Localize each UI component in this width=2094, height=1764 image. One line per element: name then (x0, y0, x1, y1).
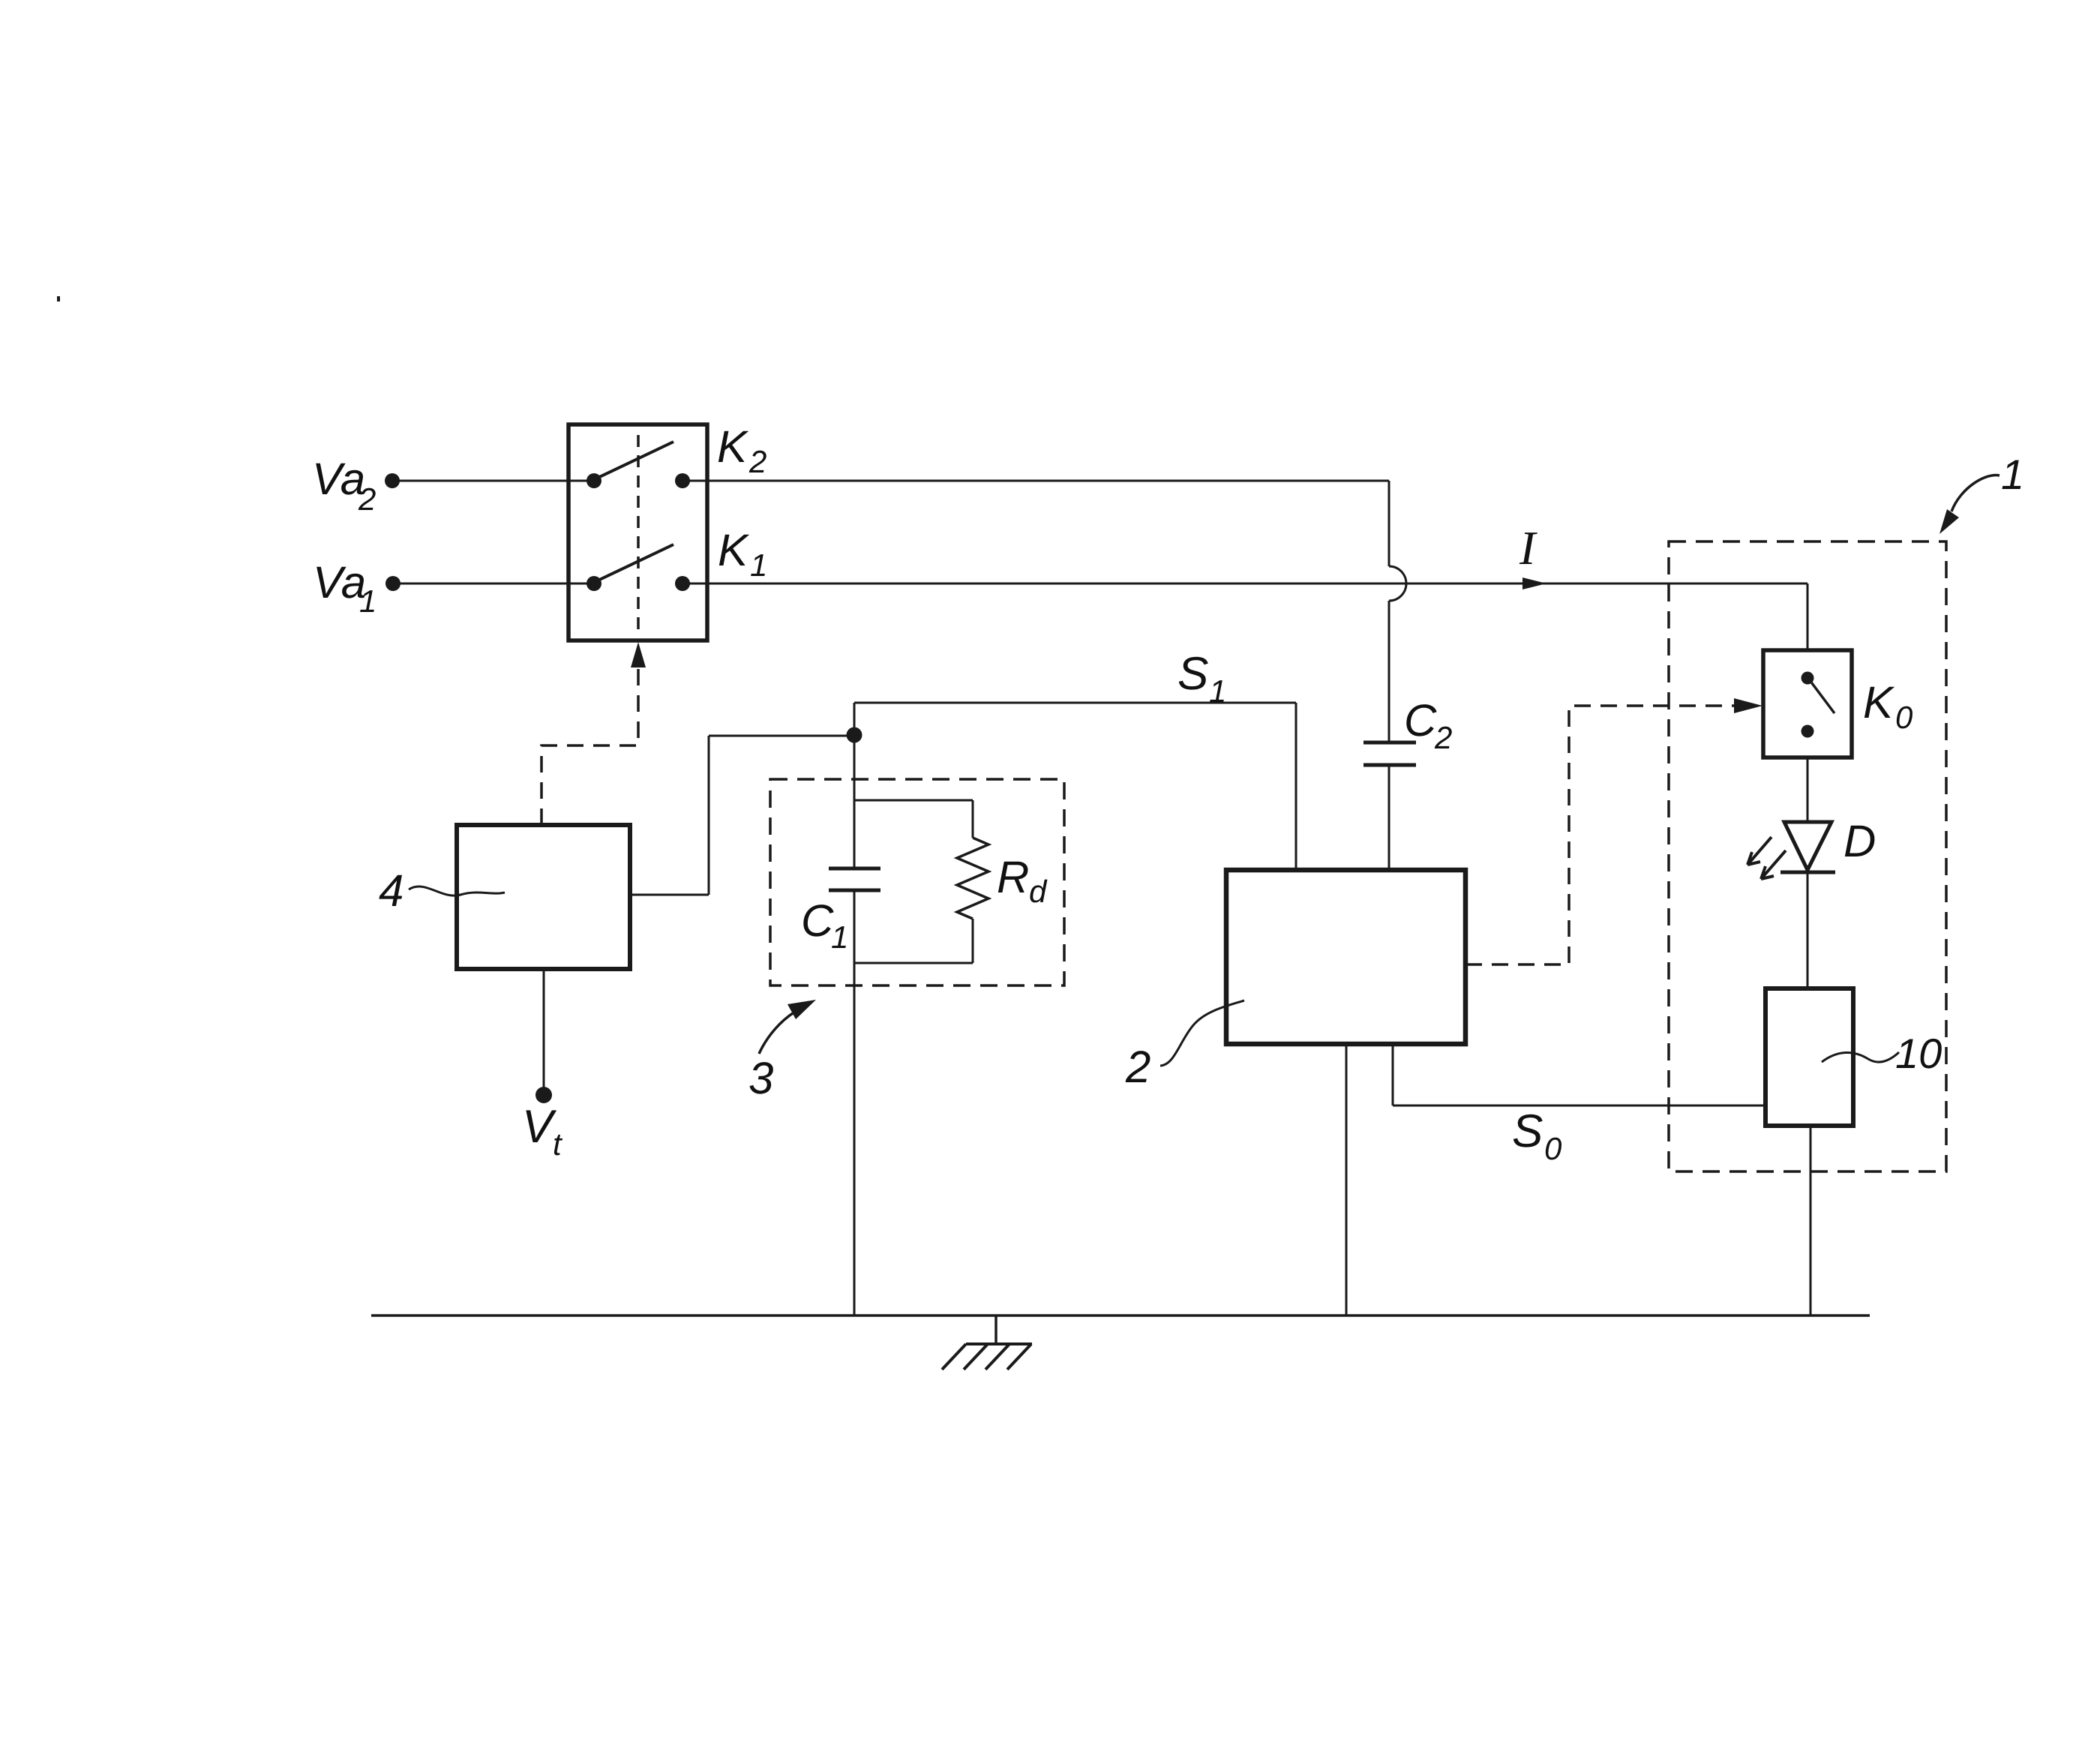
wire junction down to C1 (853, 735, 856, 868)
dashed enclosure 3 (770, 779, 1064, 985)
light emission arrow lower (1761, 850, 1786, 879)
capacitor C1 (829, 867, 880, 871)
svg-text:2: 2 (358, 481, 376, 517)
svg-text:C: C (1404, 695, 1437, 745)
label C2 (1404, 695, 1452, 755)
wire hop over K1 line (1389, 566, 1406, 601)
control arrowhead into switch block (631, 642, 646, 667)
svg-text:2: 2 (1434, 720, 1452, 755)
switch K1 arm (596, 544, 673, 581)
wire hop to C2 top plate (1388, 601, 1390, 742)
label S1 (1177, 648, 1226, 709)
svg-text:2: 2 (748, 444, 766, 479)
label K2 (717, 421, 766, 479)
wire K1 corner down to K0 (1807, 583, 1809, 650)
speck (57, 296, 60, 301)
svg-text:D: D (1843, 816, 1876, 866)
switch block K1/K2 box (568, 424, 707, 640)
svg-text:3: 3 (748, 1053, 773, 1103)
wire Va1 to switch K1 (393, 583, 594, 585)
svg-text:S: S (1177, 648, 1208, 700)
svg-text:K: K (718, 525, 750, 575)
svg-text:1: 1 (750, 547, 767, 583)
leader to label 10 (1822, 1052, 1899, 1062)
switch K2 left contact (586, 473, 601, 488)
label Vt (522, 1101, 563, 1162)
leader arrow to enclosure 1 (1951, 475, 1999, 511)
svg-text:2: 2 (1125, 1042, 1150, 1092)
wire S0 horizontal to unit 10 (1393, 1105, 1765, 1107)
wire S1 horizontal (854, 702, 1296, 704)
svg-text:K: K (717, 421, 749, 472)
wire unit 4 to Vt (543, 969, 545, 1087)
label Va1 (313, 557, 376, 619)
unit 2 box (1226, 870, 1465, 1044)
label S0 (1512, 1105, 1562, 1166)
ground stem (994, 1315, 997, 1344)
wire K0 to diode D (1807, 757, 1809, 822)
dashed control line unit 4 to switch block (541, 666, 638, 825)
resistor Rd (957, 838, 988, 919)
svg-text:1: 1 (831, 919, 848, 955)
switch K1 left contact (586, 576, 601, 591)
svg-text:I: I (1519, 521, 1537, 574)
wire diode to unit 10 (1807, 872, 1809, 988)
switch K0 bottom contact (1801, 725, 1814, 738)
wire K1 output to unit 1 (682, 583, 1807, 585)
svg-text:C: C (801, 895, 834, 946)
wire to Rd top (854, 799, 973, 802)
label Va2 (312, 454, 376, 517)
svg-text:0: 0 (1544, 1131, 1562, 1166)
wire unit 4 output up (708, 736, 710, 895)
ground rail (371, 1314, 1870, 1317)
node junction S1/C1 (847, 727, 862, 743)
wire S0 down from unit 2 (1392, 1044, 1394, 1105)
switch K2 right contact (675, 473, 690, 488)
node Vt terminal (535, 1087, 552, 1103)
svg-text:V: V (522, 1101, 557, 1153)
wire junction up to S1 (853, 703, 856, 735)
switch K2 arm (596, 442, 673, 478)
current arrow I (1522, 577, 1546, 589)
wire Va2 to switch K2 (392, 480, 594, 482)
wire Rd bottom (972, 919, 974, 963)
node Va2 terminal (385, 473, 400, 488)
wire K2 output horizontal (682, 480, 1389, 482)
leader to label 4 (409, 886, 505, 895)
svg-text:S: S (1512, 1105, 1543, 1157)
diode D (LED) (1784, 822, 1831, 870)
unit 10 box (1765, 988, 1853, 1126)
capacitor C2 (1363, 741, 1416, 745)
wire S1 down to unit 2 (1295, 703, 1297, 870)
wire unit 2 to ground rail (1345, 1044, 1348, 1315)
dashed control line from unit 2 to K0 (1465, 706, 1752, 964)
control arrowhead into K0 (1734, 698, 1762, 713)
wire unit 4 output right (630, 894, 709, 896)
svg-text:4: 4 (379, 865, 403, 916)
leader to label 2 (1160, 1000, 1244, 1066)
wire K2 down to C2 upper segment (1388, 481, 1390, 566)
light emission arrow upper (1747, 837, 1771, 865)
switch K1 right contact (675, 576, 690, 591)
svg-text:0: 0 (1895, 700, 1913, 735)
svg-text:Va: Va (313, 557, 366, 607)
leader arrow to enclosure 3 (759, 1012, 795, 1054)
wire unit 10 to ground rail (1810, 1126, 1812, 1315)
ground symbol (942, 1344, 1032, 1369)
switch K0 arm (1810, 680, 1834, 713)
switch K0 box (1763, 650, 1852, 757)
switch block center dashed link (637, 435, 640, 633)
switch K0 top contact (1801, 672, 1814, 685)
svg-text:1: 1 (359, 583, 376, 619)
svg-text:1: 1 (1209, 673, 1226, 709)
svg-text:R: R (997, 852, 1029, 902)
svg-text:10: 10 (1895, 1030, 1942, 1077)
svg-text:Va: Va (312, 454, 365, 504)
dashed enclosure 1 (1669, 541, 1946, 1171)
label Rd (997, 852, 1048, 909)
wire C1 to ground rail (853, 890, 856, 1315)
wire C2 bottom to box 2 (1388, 765, 1390, 870)
label C1 (801, 895, 848, 955)
unit 4 box (457, 825, 630, 969)
svg-text:d: d (1029, 874, 1048, 909)
node Va1 terminal (385, 576, 400, 591)
wire unit 4 output to junction (709, 735, 854, 737)
svg-text:K: K (1863, 677, 1895, 727)
label K0 (1863, 677, 1913, 735)
svg-text:1: 1 (2001, 451, 2024, 498)
label K1 (718, 525, 767, 583)
